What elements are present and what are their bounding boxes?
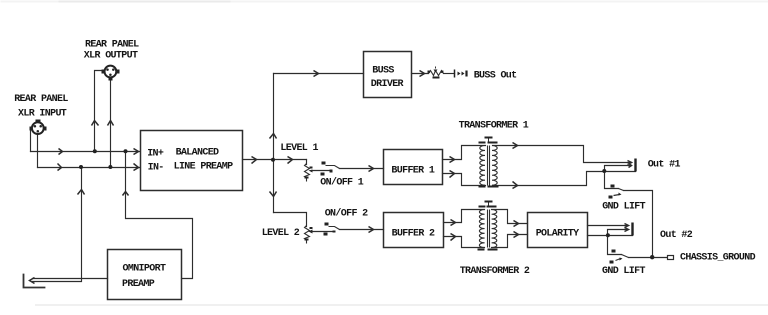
arrow buffer2 out hot (451, 220, 456, 226)
arrow left into chassis bracket (30, 278, 35, 284)
wire transformer1 secondary cold (493, 172, 605, 186)
svg-text:TRANSFORMER 2: TRANSFORMER 2 (460, 266, 530, 277)
svg-text:OMNIPORT: OMNIPORT (123, 264, 166, 275)
wire omniport return loop to IN+ bus (126, 152, 193, 279)
svg-text:BUSS: BUSS (372, 65, 394, 76)
wire level2 wiper (312, 231, 335, 233)
arrow after buss driver (420, 71, 425, 77)
svg-text:IN+: IN+ (147, 148, 164, 159)
wire level1 wiper (312, 170, 332, 172)
connector chassis ground terminal (668, 256, 674, 260)
svg-text:DRIVER: DRIVER (371, 79, 404, 90)
connector out2 jack bar (631, 223, 633, 236)
wire polarity out cold to out2 node (588, 235, 633, 237)
wire buffer2 out cold to transformer2 (444, 237, 485, 248)
node out2 shield (606, 233, 610, 237)
svg-text:BUFFER 1: BUFFER 1 (391, 165, 434, 176)
wire buffer1 out hot to transformer1 (443, 146, 486, 160)
node preamp out tee (271, 158, 275, 162)
box buffer 2 (384, 213, 444, 248)
switch on/off 2 (324, 223, 340, 236)
wire gnd lift 2 pole riser (608, 236, 622, 255)
arrow into polarity hot (514, 221, 519, 227)
arrow on IN- bus (58, 164, 62, 171)
box buss driver (364, 52, 412, 98)
wire XLR output cold riser (110, 80, 112, 168)
arrow transformer1 sec hot (513, 143, 518, 149)
wire distribution riser (buss/level rows) (273, 74, 275, 213)
wire polarity out hot to out2 jack (588, 225, 628, 227)
wire shield drop from IN- bus to chassis row (33, 168, 82, 282)
switch on/off 1 (321, 162, 340, 176)
arrow transformer1 sec cold (513, 182, 518, 189)
node IN- / shield drop (79, 165, 83, 169)
switch gnd lift 2 (610, 250, 629, 264)
transformer T1 (480, 138, 497, 186)
svg-text:LEVEL 2: LEVEL 2 (262, 228, 300, 239)
box omniport preamp (108, 250, 182, 300)
svg-text:PREAMP: PREAMP (122, 279, 155, 290)
wire out1 shield line to jack (605, 171, 636, 173)
arrow into preamp IN+ (134, 149, 139, 155)
chassis corner bracket (24, 275, 45, 288)
arrow up on distribution riser (270, 134, 277, 139)
wire out1 cold pin (605, 166, 631, 172)
wire XLR input left pin down to IN+ bus (30, 130, 32, 152)
arrow up to XLR output cold (108, 121, 114, 126)
svg-text:IN-: IN- (148, 162, 164, 173)
arrow into buffer2 (369, 227, 374, 233)
svg-text:GND LIFT: GND LIFT (602, 201, 645, 212)
arrow into polarity cold (514, 232, 519, 238)
arrow into buffer1 (369, 166, 374, 172)
arrow out2 cold pin (625, 228, 629, 232)
wire gnd lift 1 to chassis riser (624, 191, 653, 258)
svg-text:CHASSIS_GROUND: CHASSIS_GROUND (680, 253, 756, 264)
wire to buss driver (274, 73, 364, 75)
arrow down on distribution riser (270, 192, 277, 197)
connector out1 jack bar (634, 159, 636, 172)
svg-text:XLR OUTPUT: XLR OUTPUT (84, 51, 138, 62)
svg-text:GND LIFT: GND LIFT (602, 266, 645, 277)
arrow buffer1 out cold (450, 171, 455, 178)
svg-text:LEVEL 1: LEVEL 1 (280, 143, 318, 154)
arrow buffer2 out cold (451, 234, 456, 241)
arrow on preamp output (252, 157, 257, 164)
switch gnd lift 1 (609, 185, 624, 199)
arrow up on omniport return (123, 192, 129, 196)
wire buffer1 out cold to transformer1 (443, 174, 486, 186)
arrow on IN+ bus (59, 149, 63, 155)
faint bottom rule artifact (35, 304, 768, 306)
wire level2 feed from distribution (274, 213, 307, 227)
svg-text:BUFFER 2: BUFFER 2 (392, 228, 435, 239)
wire XLR output hot stub (95, 71, 102, 152)
transformer T2 (479, 203, 496, 248)
svg-text:Out #2: Out #2 (660, 230, 693, 241)
wire transformer2 secondary cold to polarity (492, 235, 528, 248)
wire out2 cold pin (608, 230, 628, 236)
connector buss out jack (455, 70, 467, 78)
connector XLR output (rear panel) (102, 66, 120, 81)
box buffer 1 (384, 150, 443, 185)
faint top scan artifact (1, 1, 768, 3)
arrow buffer1 out hot (450, 157, 455, 163)
node chassis junction (650, 255, 654, 259)
arrow on row1 feed (288, 157, 293, 164)
wire buffer2 out hot to transformer2 (444, 210, 485, 223)
wire switch2 output to buffer2 (340, 229, 384, 231)
wire switch1 output to buffer1 (340, 168, 384, 170)
svg-text:TRANSFORMER 1: TRANSFORMER 1 (459, 120, 529, 131)
node IN- / XLR out cold (108, 165, 112, 169)
wire gnd lift 1 pole riser (605, 172, 619, 189)
svg-text:Out #1: Out #1 (648, 160, 681, 171)
ARROWS (30, 71, 632, 284)
svg-text:BALANCED: BALANCED (176, 148, 219, 159)
wire IN- bus (XLR input to preamp IN-) (38, 167, 140, 169)
potentiometer buss out level (429, 67, 444, 76)
svg-text:REAR PANEL: REAR PANEL (14, 94, 68, 105)
svg-text:LINE PREAMP: LINE PREAMP (174, 162, 234, 173)
wire level1 feed into pot (306, 160, 308, 165)
arrow up to XLR output hot (92, 121, 99, 126)
arrow into preamp IN- (134, 164, 139, 171)
box polarity (528, 213, 588, 248)
node IN+ / XLR out hot (93, 149, 97, 153)
faint top darker smudge (59, 1, 231, 3)
wire omniport output to chassis node (33, 278, 108, 280)
wire transformer2 secondary hot to polarity (492, 210, 528, 224)
wire XLR input pin1 down to IN- bus (37, 135, 39, 168)
svg-text:BUSS Out: BUSS Out (474, 70, 517, 81)
potentiometer level 2 (305, 226, 313, 244)
box balanced line preamp (141, 131, 243, 191)
wire transformer1 secondary hot (493, 146, 632, 163)
svg-text:REAR PANEL: REAR PANEL (85, 40, 139, 51)
wire buss driver output (412, 73, 429, 75)
wire preamp output to row feeds (243, 159, 307, 161)
node IN+ / omniport return (124, 149, 128, 153)
arrow out1 hot pin (628, 161, 632, 165)
svg-text:ON/OFF 2: ON/OFF 2 (325, 208, 368, 220)
arrow out1 cold pin (629, 164, 632, 168)
connector XLR input (rear panel) (30, 120, 47, 135)
svg-text:POLARITY: POLARITY (536, 228, 579, 239)
svg-text:ON/OFF 1: ON/OFF 1 (320, 176, 363, 188)
wire buss pot to buss out connector (444, 73, 455, 75)
wire gnd lift 2 to chassis node (629, 257, 667, 259)
arrow into buss driver (314, 71, 319, 77)
node out1 shield (602, 169, 606, 173)
arrow out2 hot pin (625, 224, 629, 228)
wire IN+ bus (XLR input to preamp IN+) (31, 151, 140, 153)
arrow up on shield drop (78, 190, 85, 195)
svg-text:XLR INPUT: XLR INPUT (18, 108, 67, 119)
potentiometer level 1 (305, 164, 313, 182)
